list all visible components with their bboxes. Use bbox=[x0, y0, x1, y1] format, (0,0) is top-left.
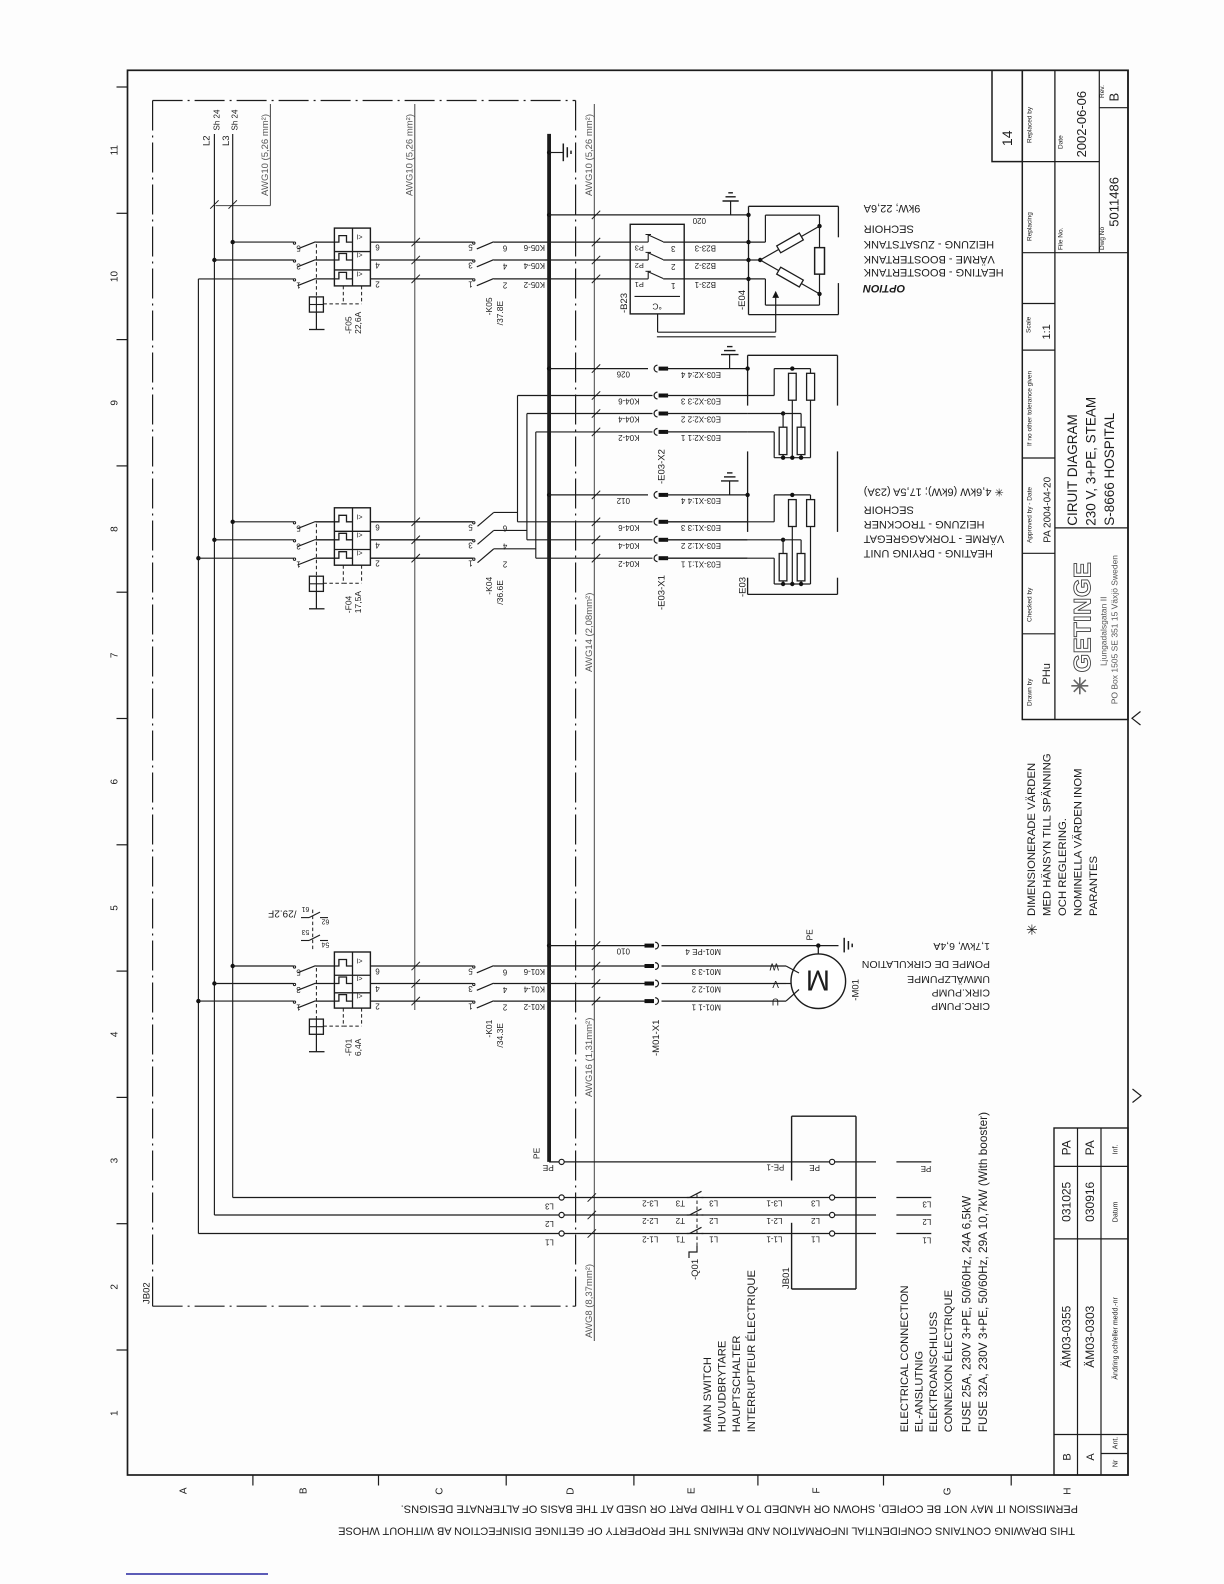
svg-text:HEATING - DRYING UNIT: HEATING - DRYING UNIT bbox=[863, 547, 992, 559]
svg-text:VÄRME - TORKAGGREGAT: VÄRME - TORKAGGREGAT bbox=[863, 532, 1004, 544]
svg-text:M01-3 3: M01-3 3 bbox=[691, 967, 721, 976]
svg-text:B: B bbox=[299, 1487, 310, 1494]
PE circle at JB02 boundary bbox=[559, 1159, 564, 1164]
svg-text:L3: L3 bbox=[544, 1202, 553, 1211]
svg-text:6: 6 bbox=[502, 968, 507, 977]
blue pen mark bottom left bbox=[126, 1573, 268, 1575]
svg-text:5011486: 5011486 bbox=[1107, 177, 1122, 227]
svg-text:S-8666 HOSPITAL: S-8666 HOSPITAL bbox=[1102, 412, 1117, 526]
svg-text:A: A bbox=[179, 1487, 190, 1494]
svg-text:53: 53 bbox=[302, 928, 310, 935]
svg-text:9: 9 bbox=[110, 400, 121, 406]
svg-text:3: 3 bbox=[296, 985, 301, 994]
E04 internal wye resistors bbox=[746, 213, 750, 217]
svg-text:Inf.: Inf. bbox=[1113, 1145, 1120, 1155]
svg-text:AWG8 (8,37mm²): AWG8 (8,37mm²) bbox=[584, 1264, 595, 1338]
svg-text:T2: T2 bbox=[675, 1216, 685, 1225]
svg-text:-E03-X1: -E03-X1 bbox=[657, 575, 668, 610]
svg-text:PE: PE bbox=[921, 1164, 932, 1173]
svg-text:54: 54 bbox=[322, 941, 330, 948]
svg-text:Sh 24: Sh 24 bbox=[212, 109, 221, 130]
motor -M01 circle bbox=[817, 946, 819, 954]
svg-text:3: 3 bbox=[671, 244, 676, 253]
GETINGE logo bbox=[1070, 562, 1097, 673]
svg-text:5: 5 bbox=[296, 244, 301, 253]
svg-text:031025: 031025 bbox=[1059, 1181, 1073, 1221]
svg-text:K01-6: K01-6 bbox=[523, 967, 545, 976]
wire 020 from PE bus to E04 bbox=[547, 213, 551, 217]
svg-text:If no other tolerance given: If no other tolerance given bbox=[1027, 370, 1034, 446]
svg-text:62: 62 bbox=[322, 918, 330, 925]
svg-text:4: 4 bbox=[502, 262, 507, 271]
title block dividers band A bbox=[1022, 161, 1055, 163]
svg-text:1: 1 bbox=[671, 281, 676, 290]
bottom ruler ticks bbox=[252, 1475, 254, 1486]
svg-text:/29.2F: /29.2F bbox=[268, 908, 296, 919]
junction dot L3 to F05 row1 bbox=[231, 240, 235, 244]
svg-text:PA 2004-04-20: PA 2004-04-20 bbox=[1043, 476, 1054, 542]
svg-text:HUVUDBRYTARE: HUVUDBRYTARE bbox=[717, 1341, 729, 1433]
svg-text:1,7kW, 6,4A: 1,7kW, 6,4A bbox=[933, 940, 990, 952]
svg-text:2: 2 bbox=[375, 279, 380, 288]
svg-text:CIRC.PUMP: CIRC.PUMP bbox=[931, 1000, 990, 1012]
svg-text:L1-1: L1-1 bbox=[766, 1235, 783, 1244]
svg-text:CONNEXION ÉLECTRIQUE: CONNEXION ÉLECTRIQUE bbox=[942, 1290, 955, 1432]
Q01 linkage and handle bbox=[696, 1195, 698, 1247]
svg-text:GETINGE: GETINGE bbox=[1070, 562, 1097, 673]
E04 ground symbol bbox=[730, 201, 732, 215]
svg-text:M01-2 2: M01-2 2 bbox=[691, 985, 721, 994]
svg-text:B23-3: B23-3 bbox=[694, 243, 716, 252]
svg-text:P1: P1 bbox=[635, 280, 644, 289]
svg-text:AWG10 (5,26 mm²): AWG10 (5,26 mm²) bbox=[260, 114, 271, 196]
svg-text:3: 3 bbox=[110, 1157, 121, 1163]
trip linkage and operator of -F05 bbox=[315, 244, 317, 297]
svg-text:5: 5 bbox=[468, 522, 473, 531]
svg-text:PE: PE bbox=[805, 929, 815, 941]
svg-text:G: G bbox=[943, 1487, 954, 1495]
svg-text:1: 1 bbox=[296, 1003, 301, 1012]
svg-text:T3: T3 bbox=[675, 1199, 685, 1208]
svg-text:Checked by: Checked by bbox=[1027, 587, 1034, 622]
svg-text:ÄM03-0355: ÄM03-0355 bbox=[1059, 1305, 1073, 1367]
svg-text:<I: <I bbox=[356, 974, 362, 981]
svg-text:°C: °C bbox=[652, 301, 662, 311]
svg-text:020: 020 bbox=[692, 216, 706, 225]
svg-text:K04-6: K04-6 bbox=[618, 523, 640, 532]
wires B23 to E04 with labels bbox=[684, 241, 748, 243]
svg-text:6: 6 bbox=[375, 967, 380, 976]
svg-text:P2: P2 bbox=[635, 261, 644, 270]
slash gauge marks on L2 L3 at AWG leader bbox=[210, 200, 218, 208]
svg-text:U: U bbox=[772, 996, 779, 1007]
svg-text:PE: PE bbox=[532, 1147, 542, 1159]
svg-text:Ändring och/eller medd.-nr: Ändring och/eller medd.-nr bbox=[1112, 1296, 1120, 1379]
auxiliary contacts 61-62 53-54 above F01 bbox=[312, 910, 314, 952]
svg-text:PHu: PHu bbox=[1041, 663, 1053, 684]
svg-text:K05-2: K05-2 bbox=[523, 280, 545, 289]
svg-text:PE-1: PE-1 bbox=[766, 1162, 784, 1171]
svg-text:2002-06-06: 2002-06-06 bbox=[1074, 91, 1089, 158]
svg-text:L3-2: L3-2 bbox=[642, 1199, 659, 1208]
svg-text:17,5A: 17,5A bbox=[353, 591, 363, 614]
fold mark lower bbox=[1133, 1089, 1142, 1103]
svg-text:W: W bbox=[769, 961, 779, 972]
svg-text:M01-PE 4: M01-PE 4 bbox=[685, 947, 721, 956]
svg-text:ÄM03-0303: ÄM03-0303 bbox=[1083, 1305, 1097, 1367]
svg-text:L2: L2 bbox=[202, 135, 213, 146]
svg-text:SECHOIR: SECHOIR bbox=[864, 504, 914, 516]
PE bus thick vertical bbox=[547, 134, 551, 1162]
junction dot L2 to F04 row2 bbox=[212, 538, 216, 542]
svg-text:010: 010 bbox=[616, 947, 630, 956]
svg-text:3: 3 bbox=[468, 540, 473, 549]
svg-text:PERMISSION IT MAY NOT BE COPIE: PERMISSION IT MAY NOT BE COPIED, SHOWN O… bbox=[401, 1503, 1078, 1515]
svg-text:UMWÄLZPUMPE: UMWÄLZPUMPE bbox=[907, 973, 990, 985]
fuse-breaker -F01 bbox=[334, 952, 370, 1008]
earth symbol at top of PE bus bbox=[547, 150, 551, 154]
svg-text:OPTION: OPTION bbox=[862, 282, 905, 294]
svg-text:B: B bbox=[1107, 93, 1122, 102]
title block outline bbox=[1022, 70, 1128, 719]
wire 012 from PE bus bbox=[547, 493, 551, 497]
svg-text:HEIZUNG - ZUSATSTANK: HEIZUNG - ZUSATSTANK bbox=[863, 238, 994, 250]
svg-text:Drawn by: Drawn by bbox=[1027, 678, 1034, 706]
svg-text:5: 5 bbox=[468, 243, 473, 252]
svg-text:Replacing: Replacing bbox=[1027, 212, 1034, 241]
svg-text:K05-4: K05-4 bbox=[523, 261, 545, 270]
svg-text:INTERRUPTEUR ÉLECTRIQUE: INTERRUPTEUR ÉLECTRIQUE bbox=[745, 1270, 758, 1432]
svg-text:VÄRME - BOOSTERTANK: VÄRME - BOOSTERTANK bbox=[863, 253, 995, 265]
svg-text:026: 026 bbox=[616, 370, 630, 379]
svg-text:Replaced by: Replaced by bbox=[1027, 106, 1034, 143]
svg-text:1: 1 bbox=[296, 560, 301, 569]
svg-text:<I: <I bbox=[356, 992, 362, 999]
svg-text:1: 1 bbox=[468, 279, 473, 288]
B23 separator line bbox=[635, 295, 681, 297]
terminal strip -E03-X2 bbox=[654, 365, 657, 372]
svg-text:HEATING - BOOSTERTANK: HEATING - BOOSTERTANK bbox=[863, 266, 1004, 278]
svg-text:L1-2: L1-2 bbox=[642, 1235, 659, 1244]
fold mark upper bbox=[1132, 712, 1141, 726]
svg-text:<I: <I bbox=[356, 512, 362, 519]
input contacts of -F04 bbox=[293, 522, 295, 524]
svg-text:Rev.: Rev. bbox=[1099, 85, 1106, 98]
svg-text:PARANTES: PARANTES bbox=[1088, 855, 1100, 916]
svg-text:-E04: -E04 bbox=[737, 290, 748, 310]
svg-text:K04-4: K04-4 bbox=[618, 415, 640, 424]
wire L3 vertical bbox=[232, 134, 234, 1198]
svg-text:1: 1 bbox=[296, 280, 301, 289]
svg-text:5: 5 bbox=[468, 967, 473, 976]
svg-text:4: 4 bbox=[375, 261, 380, 270]
svg-text:T1: T1 bbox=[675, 1235, 685, 1244]
svg-text:61: 61 bbox=[302, 905, 310, 912]
revision table outline bbox=[1054, 1128, 1128, 1475]
svg-text:K04-4: K04-4 bbox=[618, 541, 640, 550]
svg-text:CIRUIT DIAGRAM: CIRUIT DIAGRAM bbox=[1065, 414, 1080, 526]
svg-text:E03-X1:1 1: E03-X1:1 1 bbox=[680, 559, 721, 568]
svg-text:M: M bbox=[806, 964, 830, 996]
svg-text:B23-1: B23-1 bbox=[694, 280, 716, 289]
svg-text:L2: L2 bbox=[709, 1216, 718, 1225]
sheet number box bbox=[992, 70, 1022, 161]
svg-text:-F04: -F04 bbox=[344, 595, 354, 613]
svg-text:K04-2: K04-2 bbox=[618, 433, 640, 442]
svg-text:2: 2 bbox=[671, 262, 676, 271]
GETINGE star symbol bbox=[1071, 685, 1088, 687]
svg-text:K01-2: K01-2 bbox=[523, 1002, 545, 1011]
svg-text:3: 3 bbox=[468, 261, 473, 270]
svg-text:Datum: Datum bbox=[1113, 1201, 1120, 1222]
svg-text:-F05: -F05 bbox=[344, 316, 354, 334]
svg-text:5: 5 bbox=[296, 523, 301, 532]
svg-text:9kW; 22,6A: 9kW; 22,6A bbox=[863, 202, 920, 214]
K01 output wires to M01-X1 bbox=[494, 965, 648, 967]
motor phase wires U V W bbox=[786, 966, 799, 973]
gauge line AWG middle bbox=[414, 104, 416, 1010]
svg-text:22,6A: 22,6A bbox=[353, 311, 363, 334]
svg-text:K05-6: K05-6 bbox=[523, 243, 545, 252]
K05 output wires to B23 bbox=[494, 241, 631, 243]
svg-text:L3: L3 bbox=[811, 1199, 820, 1208]
svg-text:4: 4 bbox=[375, 984, 380, 993]
svg-text:<I: <I bbox=[356, 251, 362, 258]
contactor contacts -K01 bbox=[370, 965, 472, 967]
svg-text:SECHOIR: SECHOIR bbox=[864, 223, 914, 235]
svg-text:AWG10 (5,26 mm²): AWG10 (5,26 mm²) bbox=[584, 114, 595, 196]
svg-text:L3-1: L3-1 bbox=[766, 1199, 783, 1208]
svg-text:MAIN SWITCH: MAIN SWITCH bbox=[702, 1357, 714, 1432]
svg-text:3: 3 bbox=[468, 984, 473, 993]
PE wire to JB01 bbox=[564, 1161, 829, 1163]
gauge line AWG right bbox=[593, 104, 595, 1341]
svg-text:E03-X2:4 4: E03-X2:4 4 bbox=[680, 370, 721, 379]
svg-text:L1: L1 bbox=[544, 1238, 553, 1247]
svg-text:/34.3E: /34.3E bbox=[495, 1023, 505, 1048]
svg-text:JB01: JB01 bbox=[781, 1267, 792, 1289]
B23 capillary line to E04 bbox=[657, 314, 659, 332]
svg-text:<I: <I bbox=[356, 530, 362, 537]
svg-text:-K01: -K01 bbox=[484, 1019, 494, 1037]
junction dot L1 to F04 row3 bbox=[196, 556, 200, 560]
heater resistors -E03 upper group bbox=[745, 366, 749, 370]
junction dot L3 to F04 row1 bbox=[231, 520, 235, 524]
svg-text:PE: PE bbox=[809, 1163, 820, 1172]
svg-text:Approved by - Date: Approved by - Date bbox=[1027, 487, 1034, 543]
svg-text:14: 14 bbox=[999, 130, 1015, 146]
gauge line AWG left leader bbox=[269, 104, 271, 206]
B23 internal contacts P3 P2 P1 bbox=[630, 241, 648, 243]
svg-text:Date: Date bbox=[1058, 135, 1065, 149]
supply cable stubs bbox=[896, 1161, 931, 1163]
svg-text:1: 1 bbox=[468, 1002, 473, 1011]
B23 capillary second line bbox=[657, 336, 776, 338]
svg-text:E03-X2:2 2: E03-X2:2 2 bbox=[680, 415, 721, 424]
svg-text:MED HÄNSYN TILL SPÄNNING: MED HÄNSYN TILL SPÄNNING bbox=[1041, 753, 1053, 916]
svg-text:L3: L3 bbox=[221, 135, 232, 146]
fuse-breaker -F05 bbox=[334, 228, 370, 286]
svg-text:FUSE 32A, 230V 3+PE, 50/60Hz,: FUSE 32A, 230V 3+PE, 50/60Hz, 29A 10,7kW… bbox=[976, 1112, 990, 1432]
svg-text:FUSE 25A, 230V 3+PE, 50/60Hz,: FUSE 25A, 230V 3+PE, 50/60Hz, 24A 6,5kW bbox=[959, 1195, 973, 1432]
svg-text:C: C bbox=[435, 1488, 446, 1495]
svg-text:6: 6 bbox=[375, 243, 380, 252]
svg-text:JB02: JB02 bbox=[142, 1282, 153, 1304]
svg-text:2: 2 bbox=[375, 559, 380, 568]
svg-text:AWG10 (5,26 mm²): AWG10 (5,26 mm²) bbox=[405, 114, 416, 196]
svg-text:✳: ✳ bbox=[1024, 924, 1040, 936]
svg-text:ELEKTROANSCHLUSS: ELEKTROANSCHLUSS bbox=[928, 1312, 940, 1433]
junction dot L3 to F01 row1 bbox=[231, 964, 235, 968]
svg-text:EL-ANSLUTNIG: EL-ANSLUTNIG bbox=[914, 1351, 926, 1432]
svg-text:K01-4: K01-4 bbox=[523, 985, 545, 994]
trip linkage and operator of -F01 bbox=[315, 968, 317, 1019]
svg-text:PO Box 1505 SE 351 15 Växjö Sw: PO Box 1505 SE 351 15 Växjö Sweden bbox=[1110, 555, 1120, 705]
svg-text:6: 6 bbox=[502, 244, 507, 253]
svg-text:K04-6: K04-6 bbox=[618, 397, 640, 406]
svg-text:-M01: -M01 bbox=[851, 979, 862, 1001]
svg-text:E: E bbox=[687, 1487, 698, 1494]
svg-text:HAUPTSCHALTER: HAUPTSCHALTER bbox=[731, 1336, 743, 1433]
svg-text:5: 5 bbox=[110, 905, 121, 911]
svg-text:10: 10 bbox=[110, 271, 121, 283]
JB01 terminals bbox=[830, 1159, 835, 1164]
svg-text:NOMINELLA VÄRDEN INOM: NOMINELLA VÄRDEN INOM bbox=[1073, 768, 1085, 916]
svg-text:-F01: -F01 bbox=[344, 1038, 354, 1056]
svg-text:✳ 4,6kW (6kW); 17,5A (23A): ✳ 4,6kW (6kW); 17,5A (23A) bbox=[864, 486, 1004, 498]
junction dot L2 to F05 row2 bbox=[212, 258, 216, 262]
svg-text:4: 4 bbox=[375, 540, 380, 549]
svg-text:A: A bbox=[1085, 1453, 1097, 1461]
junction dot L1 to F01 row3 bbox=[196, 999, 200, 1003]
svg-text:4: 4 bbox=[502, 985, 507, 994]
svg-text:L2-2: L2-2 bbox=[642, 1216, 659, 1225]
svg-text:L2: L2 bbox=[544, 1219, 553, 1228]
svg-text:3: 3 bbox=[296, 541, 301, 550]
contactor contacts -K04 bbox=[370, 521, 472, 523]
heater bank -E03 chassis box bbox=[748, 354, 838, 356]
heater resistors -E03 lower group bbox=[745, 493, 749, 497]
input contacts of -F01 bbox=[293, 966, 295, 968]
svg-text:Ant.: Ant. bbox=[1113, 1437, 1120, 1450]
trip linkage and operator of -F04 bbox=[315, 524, 317, 576]
wire L1 vertical bbox=[197, 279, 199, 1234]
svg-text:7: 7 bbox=[110, 652, 121, 658]
svg-text:L1: L1 bbox=[811, 1235, 820, 1244]
left ruler ticks bbox=[117, 86, 128, 88]
svg-text:-M01-X1: -M01-X1 bbox=[651, 1020, 662, 1056]
svg-text:2: 2 bbox=[375, 1002, 380, 1011]
svg-text:<I: <I bbox=[356, 549, 362, 556]
svg-text:L2: L2 bbox=[922, 1217, 931, 1226]
svg-text:8: 8 bbox=[110, 526, 121, 532]
svg-text:1: 1 bbox=[110, 1410, 121, 1416]
svg-text:ELECTRICAL CONNECTION: ELECTRICAL CONNECTION bbox=[899, 1285, 911, 1432]
drawing frame bbox=[128, 70, 1129, 1475]
svg-text:1: 1 bbox=[468, 559, 473, 568]
svg-text:AWG14 (2,08mm²): AWG14 (2,08mm²) bbox=[584, 593, 595, 672]
svg-text:POMPE DE CIRKULATION: POMPE DE CIRKULATION bbox=[862, 958, 990, 970]
svg-text:File No.: File No. bbox=[1058, 227, 1065, 250]
input contacts of -F05 bbox=[293, 242, 295, 244]
svg-text:Sh 24: Sh 24 bbox=[231, 109, 240, 130]
svg-text:3: 3 bbox=[296, 262, 301, 271]
wire 026 from PE bus bbox=[547, 366, 551, 370]
svg-text:OCH REGLERING.: OCH REGLERING. bbox=[1057, 818, 1069, 916]
svg-text:V: V bbox=[772, 978, 779, 989]
svg-text:4: 4 bbox=[110, 1031, 121, 1037]
svg-text:030916: 030916 bbox=[1083, 1181, 1097, 1221]
svg-text:012: 012 bbox=[616, 496, 630, 505]
svg-text:5: 5 bbox=[296, 968, 301, 977]
PE bus corner to JB01 bbox=[549, 1161, 559, 1163]
wire L1 corner to F05 row3 bbox=[198, 278, 293, 280]
svg-text:/37.8E: /37.8E bbox=[495, 300, 505, 325]
svg-text:P3: P3 bbox=[635, 243, 644, 252]
E04 vertical resistor bbox=[815, 248, 825, 275]
svg-text:F: F bbox=[812, 1488, 823, 1494]
svg-text:AWG16 (1,31mm²): AWG16 (1,31mm²) bbox=[584, 1018, 595, 1097]
title block dividers band B bbox=[1055, 161, 1099, 163]
svg-text:Scale: Scale bbox=[1026, 316, 1033, 333]
svg-text:PA: PA bbox=[1059, 1140, 1073, 1155]
svg-text:E03-X2:3 3: E03-X2:3 3 bbox=[680, 397, 721, 406]
svg-text:Ljungadalsgatan II: Ljungadalsgatan II bbox=[1099, 597, 1109, 666]
svg-text:THIS DRAWING CONTAINS CONFIDEN: THIS DRAWING CONTAINS CONFIDENTIAL INFOR… bbox=[338, 1525, 1075, 1537]
L row wires from supply verticals bbox=[233, 1197, 559, 1199]
svg-text:11: 11 bbox=[110, 145, 121, 156]
svg-text:DIMENSIONERADE VÄRDEN: DIMENSIONERADE VÄRDEN bbox=[1026, 763, 1038, 916]
svg-text:HEIZUNG - TROCKNER: HEIZUNG - TROCKNER bbox=[864, 518, 985, 530]
svg-text:CIRK.PUMP: CIRK.PUMP bbox=[932, 987, 990, 999]
svg-text:6: 6 bbox=[375, 522, 380, 531]
svg-text:M01-1 1: M01-1 1 bbox=[691, 1002, 721, 1011]
svg-text:-K04: -K04 bbox=[484, 576, 494, 594]
motor PE wire and earth bbox=[662, 945, 839, 947]
svg-text:E03-X1:3 3: E03-X1:3 3 bbox=[680, 523, 721, 532]
svg-text:-K05: -K05 bbox=[484, 297, 494, 315]
fuse-breaker -F04 bbox=[334, 508, 370, 565]
svg-text:<I: <I bbox=[356, 269, 362, 276]
wire L2 vertical bbox=[213, 134, 215, 1215]
svg-text:PA: PA bbox=[1083, 1140, 1097, 1155]
svg-text:6: 6 bbox=[110, 778, 121, 784]
svg-text:D: D bbox=[566, 1488, 577, 1495]
svg-text:E03-X1:2 2: E03-X1:2 2 bbox=[680, 541, 721, 550]
terminal strip -M01-X1 bbox=[645, 944, 655, 948]
svg-text:<I: <I bbox=[356, 957, 362, 964]
junction box JB01 bbox=[792, 1115, 856, 1117]
svg-text:L2-1: L2-1 bbox=[766, 1216, 783, 1225]
enclosure JB02 dash-dot box bbox=[153, 100, 576, 102]
svg-text:2: 2 bbox=[110, 1284, 121, 1290]
svg-text:L2: L2 bbox=[811, 1216, 820, 1225]
svg-text:L3: L3 bbox=[922, 1200, 931, 1209]
svg-text:Nr: Nr bbox=[1113, 1459, 1120, 1467]
K04 output wires and risers to E03-X2/X1 bbox=[494, 511, 518, 513]
booster heater -E04 chassis box bbox=[749, 205, 839, 207]
svg-text:<I: <I bbox=[356, 233, 362, 240]
svg-text:2: 2 bbox=[502, 280, 507, 289]
svg-text:-Q01: -Q01 bbox=[690, 1259, 701, 1280]
svg-text:L3: L3 bbox=[709, 1199, 718, 1208]
svg-text:E03-X1:4 4: E03-X1:4 4 bbox=[680, 496, 721, 505]
svg-text:230 V, 3+PE, STEAM: 230 V, 3+PE, STEAM bbox=[1084, 397, 1099, 526]
svg-text:Dwg No: Dwg No bbox=[1099, 226, 1106, 250]
svg-text:-B23: -B23 bbox=[619, 293, 630, 313]
svg-text:K04-2: K04-2 bbox=[618, 559, 640, 568]
svg-text:1:1: 1:1 bbox=[1041, 324, 1053, 339]
